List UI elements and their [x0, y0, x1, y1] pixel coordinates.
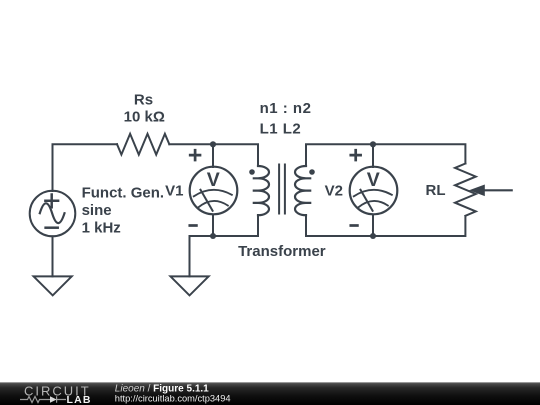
- wire V2 bottom stem: [372, 215, 374, 237]
- logo diode triangle: [50, 396, 57, 403]
- svg-text:L1 L2: L1 L2: [260, 121, 302, 138]
- resistor Rs: [117, 134, 169, 155]
- wire node B to left ground: [190, 236, 214, 276]
- V1 minus mark: [190, 224, 197, 227]
- wire V1 bottom stem: [212, 215, 214, 237]
- svg-text:V2: V2: [325, 182, 343, 199]
- svg-text:V: V: [367, 169, 380, 191]
- node C junction dot: [370, 141, 376, 147]
- svg-text:Transformer: Transformer: [238, 243, 326, 260]
- resistor RL (rheostat): [455, 164, 476, 216]
- svg-text:RL: RL: [426, 182, 446, 199]
- wire source bottom to ground: [52, 236, 54, 276]
- svg-text:10 kΩ: 10 kΩ: [124, 109, 165, 126]
- wire secondary bottom to node D: [306, 215, 373, 236]
- wire secondary top to node C: [306, 144, 373, 166]
- source plus sign: [45, 195, 58, 208]
- wire RL bottom to node D: [373, 216, 465, 236]
- transformer primary phase dot: [249, 169, 255, 175]
- wire V1 top stem: [212, 144, 214, 167]
- logo schematic line with resistor and diode: [20, 396, 66, 403]
- voltmeter V2 scale arcs: [354, 190, 392, 208]
- wire top-left from source to resistor: [53, 144, 118, 191]
- svg-text:1 kHz: 1 kHz: [82, 220, 121, 237]
- V1 plus mark: [190, 150, 200, 160]
- V2 plus mark: [351, 150, 361, 160]
- ground under source: [34, 276, 72, 295]
- transformer secondary coil L2: [295, 166, 310, 215]
- RL wiper arrowhead: [469, 185, 485, 197]
- svg-text:V1: V1: [165, 182, 183, 199]
- ground under V1: [171, 276, 209, 295]
- V2 minus mark: [351, 224, 358, 227]
- wire resistor to node A: [169, 143, 213, 145]
- voltmeter V1 scale arcs: [194, 190, 232, 208]
- footer bar: [0, 382, 540, 405]
- source V circle: [30, 191, 76, 237]
- wire node C to RL top: [373, 144, 465, 163]
- voltmeter V2 needle: [361, 190, 373, 211]
- wire node A to primary top: [213, 144, 258, 166]
- wire primary bottom to node B: [213, 215, 258, 236]
- transformer secondary phase dot: [309, 169, 315, 175]
- RL wiper arrow line: [485, 189, 512, 191]
- transformer primary coil L1: [254, 166, 269, 215]
- svg-text:Rs: Rs: [134, 91, 153, 108]
- node D junction dot: [370, 233, 376, 239]
- voltmeter V2 circle: [350, 167, 398, 215]
- transformer core: [279, 165, 285, 214]
- wire V2 top stem: [372, 144, 374, 167]
- voltmeter V1 circle: [190, 167, 238, 215]
- source minus sign: [46, 226, 58, 229]
- svg-text:http://circuitlab.com/ctp3494: http://circuitlab.com/ctp3494: [115, 394, 231, 404]
- svg-text:n1 : n2: n1 : n2: [260, 100, 312, 117]
- node B junction dot: [210, 233, 216, 239]
- svg-text:Funct. Gen.: Funct. Gen.: [82, 185, 165, 202]
- svg-text:V: V: [207, 169, 220, 191]
- svg-text:sine: sine: [82, 202, 112, 219]
- voltmeter V1 needle: [201, 190, 213, 211]
- node A junction dot: [210, 141, 216, 147]
- source sine wave: [40, 203, 65, 223]
- svg-text:LAB: LAB: [67, 394, 92, 405]
